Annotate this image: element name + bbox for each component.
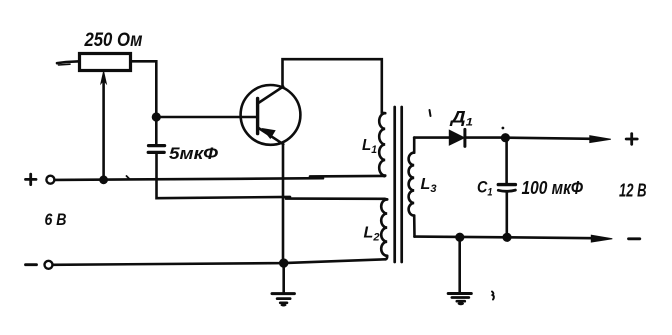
node E: ground junction dot on - output wire xyxy=(455,233,464,242)
resistor R1 250 Ом (potentiometer body) xyxy=(80,54,131,71)
wire L3 top to diode xyxy=(414,136,449,139)
wire emitter down to ground node xyxy=(282,145,285,264)
diode D1 triangle xyxy=(450,131,464,145)
capacitor C2 bottom lead and wire to L2 top xyxy=(157,154,385,199)
transformer winding L3 xyxy=(409,138,415,237)
wire + input to L1 bottom (two overlapping hand strokes) xyxy=(55,176,384,180)
wire resistor right terminal to base node xyxy=(131,61,157,113)
stray ink dot above output node xyxy=(502,127,505,130)
stray tick mark below 5мкФ capacitor xyxy=(127,176,130,179)
wire and arrow to + output xyxy=(505,136,610,143)
label L2 xyxy=(364,224,380,243)
potentiometer wiper arrow xyxy=(101,71,106,177)
svg-text:12 В: 12 В xyxy=(619,180,647,200)
wire L3 bottom to - output with arrow xyxy=(415,235,613,242)
wire stub left of potentiometer xyxy=(57,61,80,65)
capacitor C1 plates xyxy=(498,185,515,192)
label L3 xyxy=(421,176,437,195)
node C: emitter/ground junction dot xyxy=(279,258,288,267)
label Д1 xyxy=(449,108,473,129)
ground 2 xyxy=(448,237,471,305)
capacitor C1 top lead xyxy=(505,138,508,183)
svg-text:250 Ом: 250 Ом xyxy=(84,30,143,51)
svg-text:5мкФ: 5мкФ xyxy=(169,145,218,163)
wire diode to + output node xyxy=(465,136,505,139)
+ output sign xyxy=(626,134,637,145)
stray tick mark near diode xyxy=(430,110,431,116)
capacitor C2 5мкФ top lead xyxy=(155,117,158,144)
transistor Q1 collector stroke xyxy=(258,87,284,104)
- output sign xyxy=(629,237,640,240)
terminal + input xyxy=(26,174,55,184)
ground 1 xyxy=(272,263,294,306)
node B: junction dot on + wire below wiper xyxy=(99,175,108,184)
transformer winding L2 xyxy=(381,199,387,259)
node F: C1 junction dot on - output wire xyxy=(502,233,511,242)
label 5мкФ xyxy=(169,145,218,163)
transistor Q1 circle xyxy=(241,85,301,145)
svg-text:6 В: 6 В xyxy=(45,211,67,229)
stray squiggle mark right of ground 2 xyxy=(492,292,494,300)
wire - input to ground node and L2 bottom xyxy=(53,259,386,265)
label L1 xyxy=(362,137,377,156)
terminal - input xyxy=(26,261,53,269)
transistor Q1 base bar xyxy=(256,99,259,134)
label C1 xyxy=(477,177,493,198)
capacitor C2 5мкФ plates xyxy=(148,146,164,153)
transistor Q1 emitter stroke with PNP arrow xyxy=(258,127,284,144)
diode D1 cathode bar xyxy=(463,129,466,146)
label 250 Ом xyxy=(84,30,143,51)
wire base junction to transistor base xyxy=(156,116,256,119)
label 6 В xyxy=(45,211,67,229)
label 12 В xyxy=(619,180,647,200)
svg-text:100 мкФ: 100 мкФ xyxy=(522,178,584,198)
capacitor C1 bottom lead xyxy=(505,192,508,238)
transformer core xyxy=(395,107,402,262)
node D: + output junction dot xyxy=(501,133,510,142)
label 100 мкФ xyxy=(522,178,584,198)
node A: base junction dot xyxy=(152,112,161,121)
wire collector to transformer L1 top xyxy=(283,59,382,113)
transformer winding L1 xyxy=(379,113,385,176)
